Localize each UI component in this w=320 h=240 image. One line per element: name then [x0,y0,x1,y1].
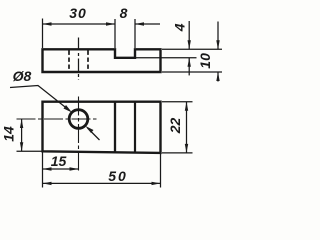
extension lines top [42,19,44,49]
dim 15 [43,168,79,170]
dim 14 vertical [21,119,23,151]
svg-text:15: 15 [51,153,67,169]
dim 8 right tail [135,23,160,25]
svg-text:Ø8: Ø8 [13,68,32,84]
arrow leader upper (at circle) [64,105,73,113]
arrow 4 bottom [188,58,191,67]
arrow 30 right / 8 left [106,22,115,25]
extension lines right of plan [162,101,193,103]
slot edge right (plan) [134,102,136,153]
leader line diameter [10,86,70,111]
hidden line hole left (front view) [68,51,70,72]
svg-text:4: 4 [172,23,188,32]
svg-text:8: 8 [120,5,128,21]
dim 10 vertical [217,22,219,50]
arrow 50 left [43,182,52,185]
dim line 30 [43,23,116,25]
arrow 14 top [20,119,23,128]
svg-text:14: 14 [1,126,17,142]
arrow 15 left [43,167,52,170]
arrow 14 bottom [20,142,23,151]
dim 22 vertical [186,102,188,153]
hole horizontal center line [17,118,98,120]
arrow 22 bottom [185,144,188,153]
leader tail lower right [88,128,100,140]
extension line plan bottom-left [17,150,43,152]
center line hole (front view) [78,38,80,81]
arrow 10 bottom [216,72,219,81]
svg-text:10: 10 [197,53,213,69]
dim 50 [43,182,161,184]
arrow 4 top [188,40,191,49]
arrow 8 right [135,22,144,25]
front view outline [43,49,161,72]
arrow 15 right [70,167,79,170]
arrow leader lower (at circle) [85,126,93,133]
slot edge left (plan) [114,102,116,153]
arrow 22 top [185,102,188,111]
svg-text:50: 50 [108,168,128,184]
arrow 50 right [152,182,161,185]
arrow 30 left [43,22,52,25]
svg-text:22: 22 [167,118,183,135]
svg-text:30: 30 [69,5,87,21]
hole circle [69,110,88,129]
extension lines right of front view [162,48,222,50]
dim 4 vertical [188,21,190,49]
plan view outline [43,102,161,153]
hidden line hole right (front view) [87,51,89,72]
hole vertical center line [78,97,80,173]
extension lines below plan [42,152,44,187]
arrow 10 top [216,40,219,49]
